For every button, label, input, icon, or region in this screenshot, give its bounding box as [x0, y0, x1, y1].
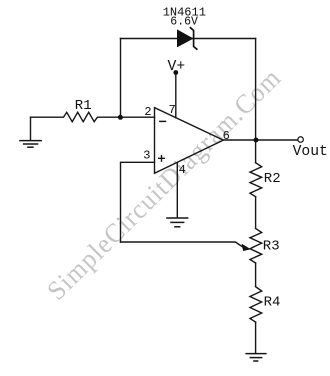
- ground (bottom of R4): [245, 354, 266, 361]
- svg-text:4: 4: [179, 163, 186, 177]
- ground (R1 left): [19, 141, 42, 148]
- svg-text:7: 7: [169, 103, 176, 117]
- wire op-amp pin4 to ground: [176, 162, 178, 217]
- svg-text:6: 6: [223, 129, 230, 143]
- potentiometer R3: [250, 228, 262, 263]
- op-amp U1: [155, 108, 224, 174]
- op-amp non-inverting input plus sign: [158, 155, 165, 162]
- node junction dot at R1 / pin2: [118, 115, 123, 120]
- wire op-amp pin3 to feedback corner: [121, 162, 155, 242]
- node junction dot at output: [254, 138, 259, 143]
- Vout open terminal circle: [298, 137, 304, 143]
- wire op-amp output pin6 to Vout: [223, 139, 297, 141]
- wire R2 to R3: [255, 197, 257, 229]
- svg-text:V+: V+: [168, 59, 186, 75]
- svg-text:Vout: Vout: [293, 144, 328, 160]
- svg-text:R3: R3: [263, 239, 280, 255]
- svg-text:2: 2: [144, 105, 151, 119]
- wire right vertical from top corner down to output node and R2: [255, 39, 257, 163]
- resistor R1: [31, 112, 155, 121]
- zener diode D1 body: [177, 29, 194, 47]
- resistor R2: [250, 163, 262, 197]
- op-amp inverting input minus sign: [159, 120, 166, 122]
- wire top loop: left corner to zener anode: [121, 38, 256, 40]
- wire feedback bottom horizontal to R3 wiper: [121, 242, 245, 248]
- wire left vertical from top corner down to R1 junction: [120, 39, 122, 118]
- svg-text:R2: R2: [264, 171, 281, 187]
- svg-text:R4: R4: [264, 294, 281, 310]
- wire R1 ground stem: [30, 117, 32, 140]
- node V+ terminal dot: [173, 70, 178, 75]
- wire R4 to ground: [255, 322, 257, 353]
- ground (op-amp pin4): [166, 218, 188, 227]
- zener diode D1 cathode bar with hooks: [190, 27, 198, 50]
- wire R3 to R4: [255, 263, 257, 287]
- resistor R4: [250, 287, 262, 322]
- svg-text:3: 3: [143, 149, 150, 163]
- svg-text:R1: R1: [75, 98, 92, 114]
- svg-text:6.6V: 6.6V: [170, 16, 198, 29]
- wire op-amp pin7 supply from V+ dot: [175, 73, 177, 118]
- R3 wiper arrow: [242, 244, 251, 251]
